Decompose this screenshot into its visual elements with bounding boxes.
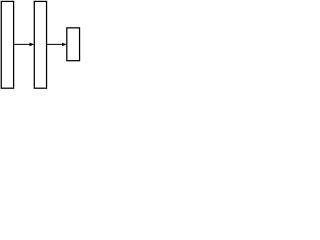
arrow 2 head [62,43,67,47]
wire arrow 2 shaft [47,43,63,45]
wire arrow 1 shaft [14,43,31,45]
tall block 1 (left layer) [1,1,13,88]
tall block 2 (middle layer) [34,1,46,88]
arrow 1 head [30,43,35,47]
small block 3 (right layer) [67,28,80,61]
